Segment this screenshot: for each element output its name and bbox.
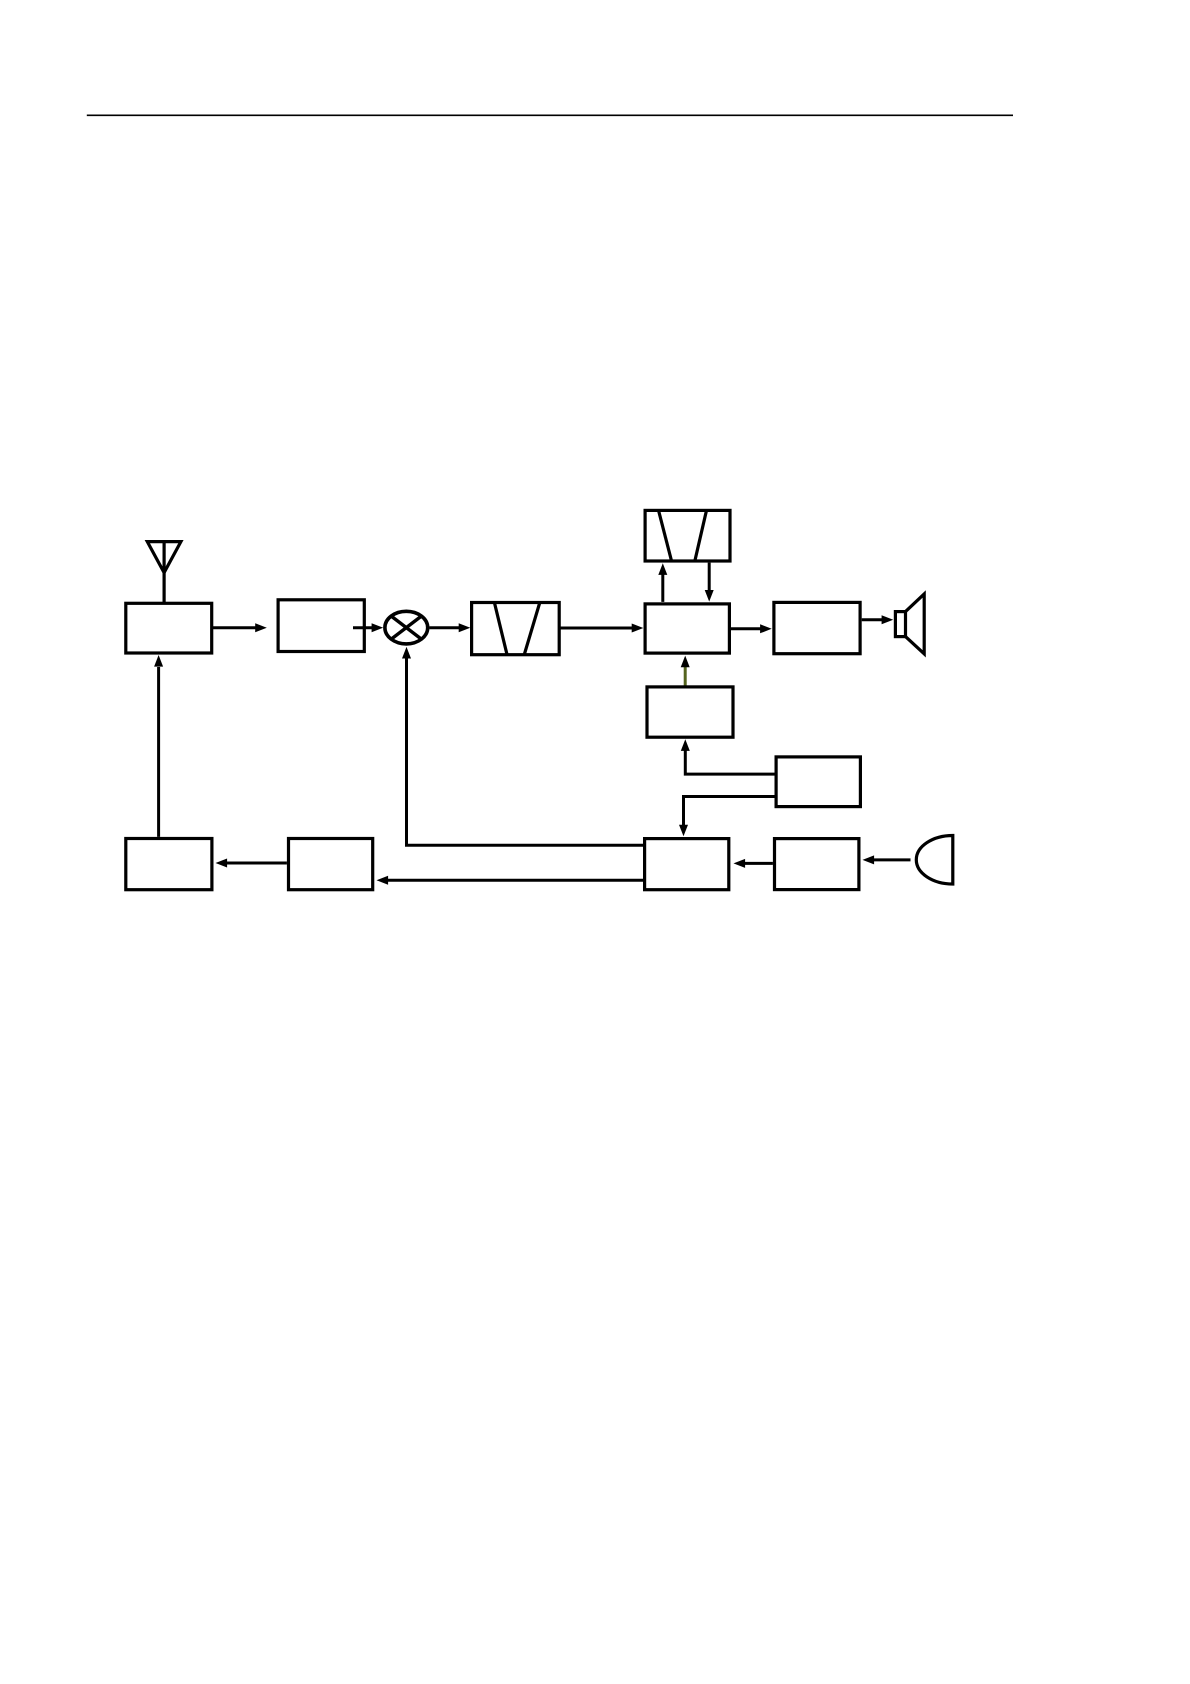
wire box8 to box11 (long) with arrow: [377, 876, 645, 885]
speaker: [895, 594, 924, 654]
wire box3 to box4 with arrow: [559, 624, 643, 633]
mixer (crossed circle): [385, 611, 428, 644]
wire box7 to box6 elbow with arrow: [681, 739, 775, 774]
wire box9 to box8 with arrow: [734, 859, 773, 868]
block ceramic filter (boxF): [645, 510, 730, 563]
block preselector (box2): [278, 600, 364, 652]
wire mixer to box3 with arrow: [430, 623, 471, 632]
olive wire box6 up to box4 with arrow: [681, 656, 690, 686]
block PA (box10): [126, 839, 212, 890]
wire box7 to box8 elbow with arrow: [679, 797, 775, 837]
block oscillator multiplier (box6): [647, 687, 733, 737]
wire box4 to box5 with arrow: [731, 624, 772, 633]
block mic amplifier (box9): [775, 839, 859, 890]
block RF amplifier (box1): [126, 603, 212, 653]
wire box8 to mixer (long elbow up) with arrow: [402, 647, 644, 845]
block reference oscillator (box7): [776, 757, 860, 807]
block buffer (box11): [289, 839, 373, 890]
wire box4 up to boxF with arrow: [658, 563, 667, 602]
wire box2 to mixer with arrow: [353, 623, 383, 632]
wire mic to box9 with arrow: [863, 855, 911, 864]
wire box11 to box10 with arrow: [216, 859, 287, 868]
header rule: [87, 114, 1013, 116]
block transmit mixer (box8): [645, 839, 729, 890]
antenna: [147, 542, 181, 604]
block audio amplifier (box5): [774, 602, 860, 653]
block IF filter (box3): [472, 603, 560, 655]
wire boxF down to box4 with arrow: [705, 563, 714, 602]
wire box1 to box2 with arrow: [212, 623, 267, 632]
microphone: [916, 836, 953, 885]
wire box5 to speaker with arrow: [862, 615, 894, 624]
block IF amp / demodulator (box4): [645, 604, 729, 653]
wire box10 up to box1 with arrow: [154, 655, 163, 837]
